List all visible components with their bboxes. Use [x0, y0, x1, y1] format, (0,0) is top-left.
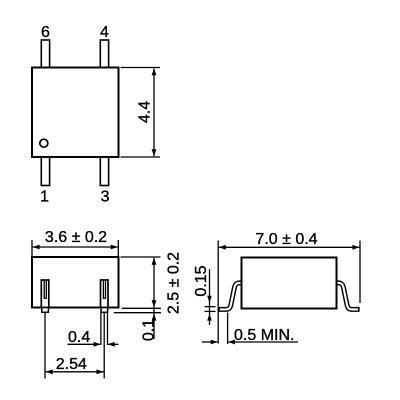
dimension 4.4 line with arrows: [153, 68, 155, 156]
dimension 0.5 line left part with arrow: [202, 341, 217, 343]
dimension 2.54 line with arrows: [46, 371, 104, 373]
svg-text:2.5 ± 0.2: 2.5 ± 0.2: [165, 252, 182, 314]
svg-text:0.15: 0.15: [193, 265, 210, 296]
svg-text:7.0 ± 0.4: 7.0 ± 0.4: [255, 231, 317, 248]
dimension 0.15 tick bottom: [205, 310, 216, 312]
dimension 3.6 line with arrows: [33, 246, 118, 248]
dimension 0.5 line right part with arrow: [228, 341, 298, 343]
lead center extension line right: [103, 313, 105, 379]
dimension 4.4 extension line top: [121, 67, 161, 69]
pin 4 lead (top view): [100, 40, 108, 68]
svg-text:1: 1: [40, 189, 49, 206]
dimension 3.6 extension line left: [31, 240, 33, 256]
package body (front view): [32, 257, 119, 308]
dimension 2.5 line with arrows: [153, 258, 155, 339]
dimension 0.15 arrow down: [209, 269, 211, 325]
svg-text:0.1: 0.1: [140, 319, 157, 341]
pin 1 lead (top view): [41, 157, 49, 186]
svg-text:3.6 ± 0.2: 3.6 ± 0.2: [45, 229, 107, 246]
lead width extension line right (0.4): [107, 313, 109, 345]
dimension 7.0 extension line left: [217, 241, 219, 344]
lead tip extension line: [114, 312, 161, 314]
dimension 0.4 leader with arrow: [68, 343, 101, 345]
svg-text:3: 3: [101, 189, 110, 206]
package body (side view): [242, 258, 337, 309]
body bottom extension line: [122, 307, 161, 309]
svg-text:0.5 MIN.: 0.5 MIN.: [234, 327, 294, 344]
lead center extension line left: [44, 313, 46, 379]
gull-wing lead right (side view): [335, 283, 360, 310]
pin lead right (front view): [101, 280, 109, 312]
dimension 3.6 extension line right: [117, 240, 119, 256]
dimension 4.4 extension line bottom: [121, 156, 161, 158]
pin lead left (front view): [41, 280, 49, 312]
svg-text:4: 4: [100, 24, 109, 41]
dimension 0.5 extension line right: [227, 313, 229, 345]
dimension 7.0 extension line right: [359, 241, 361, 304]
pin 1 indicator dot: [40, 139, 48, 147]
pin 3 lead (top view): [100, 157, 108, 186]
svg-text:4.4: 4.4: [137, 101, 154, 123]
lead width extension line left (0.4): [100, 313, 102, 345]
dimension 0.1 arrow line: [152, 314, 157, 321]
pin 6 lead (top view): [41, 40, 49, 68]
svg-text:0.4: 0.4: [68, 329, 90, 346]
svg-text:2.54: 2.54: [56, 356, 87, 373]
dimension 0.15 arrow up: [207, 314, 212, 321]
svg-text:6: 6: [41, 24, 50, 41]
dimension 2.5 extension line top: [121, 256, 161, 258]
dimension 7.0 line with arrows: [219, 246, 360, 248]
gull-wing lead left (side view): [218, 283, 243, 310]
package body (top view): [32, 68, 119, 158]
dimension 0.15 tick top: [205, 306, 216, 308]
